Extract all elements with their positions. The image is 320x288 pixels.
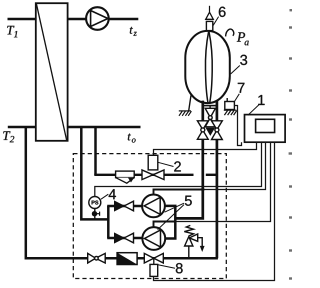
node Pa label [237,32,249,45]
pipe from pump 5a top to vessel pipe [154,190,203,195]
valve-2 line right segment [206,174,216,176]
controller wire w3 to pump 5a [203,142,266,189]
left pipe valve [197,121,208,140]
solenoid valve 2 [142,155,164,179]
label 7 [234,83,245,103]
node t_z label [130,27,137,36]
level sensor 7 box [225,102,235,110]
wire: riser from t_o line to valve-2 line [94,127,97,175]
label 3 [231,55,248,74]
controller wire w5 to valve 8 [154,142,275,280]
valve-2 line left segment [94,174,193,176]
node T1 label [7,26,17,37]
relief discharge arrow [200,246,205,252]
top branch pipe [107,205,143,207]
pump (top circulation pump) [86,7,109,30]
wire: return pipe from HX to t_o [68,126,141,129]
controller display [256,119,275,132]
vessel outlet header bar [203,105,217,107]
pump 5a (top make-up pump) [142,195,165,218]
controller wire w1 to valve 2 [154,142,257,155]
air vent valve 6 on vessel top [206,6,214,31]
wire: pipe to t_z [108,18,138,21]
check valve top branch [115,201,134,211]
controller 1 box [245,115,286,143]
make-up bottom line [85,257,218,260]
manual valve on make-up line [88,253,106,263]
wire: suction riser from t_o line down [81,127,108,219]
label 4 [101,189,116,199]
dashed module box [73,154,226,279]
safety relief valve [184,225,202,258]
label 2 [158,161,181,171]
vessel right support stub [226,98,228,102]
suction manifold [107,206,110,238]
right margin text remnants [289,9,292,280]
label 5 [158,196,192,230]
pipe from pump 5b top to discharge manifold [154,222,176,228]
check valve bottom branch [115,233,134,243]
node Pa pointer curl [226,29,234,36]
center valve (with ball) [205,108,215,127]
junction dot [92,211,97,216]
wire: drain riser from T2 line down [26,127,86,258]
pressure sensor PS 4 [89,197,101,209]
drain black triangle [206,128,216,136]
expansion vessel 3 body [185,31,230,103]
node T2 label [3,131,14,142]
wire: supply pipe from HX to pump [68,18,87,21]
dirt filter on make-up line [117,253,137,265]
label 1 [248,95,265,115]
strainer on valve-2 line [116,171,135,183]
label 8 [158,263,183,273]
vessel outlet right pipe [216,101,219,258]
pump discharge manifold [165,206,175,239]
right pipe valve [212,121,223,140]
ground under left leg [179,111,192,116]
controller wire w4 to pump 5b [175,142,270,221]
solenoid valve 8 [144,253,163,276]
wire from sensor 7 to controller [234,106,241,146]
heat exchanger HX body [36,3,68,141]
label 6 [213,7,226,26]
vessel left support leg [189,95,191,111]
pump 5b (bottom make-up pump) [142,227,165,250]
ground under sensor 7 [224,110,237,115]
bottom branch pipe [107,237,143,239]
heat exchanger diagonal divider [36,4,66,140]
center drain stub [209,106,211,109]
junction dot at vessel pipe [201,188,204,191]
node t_o label [128,134,136,143]
vessel membrane bag [205,32,208,103]
controller wire w2 to PS 4 [95,142,262,196]
wire: return pipe T2 left segment [8,126,36,129]
wire: supply pipe T1 left segment [8,18,36,21]
vessel outlet left pipe [175,101,203,219]
test stub [95,212,100,216]
impulse line from PS down [94,209,96,220]
